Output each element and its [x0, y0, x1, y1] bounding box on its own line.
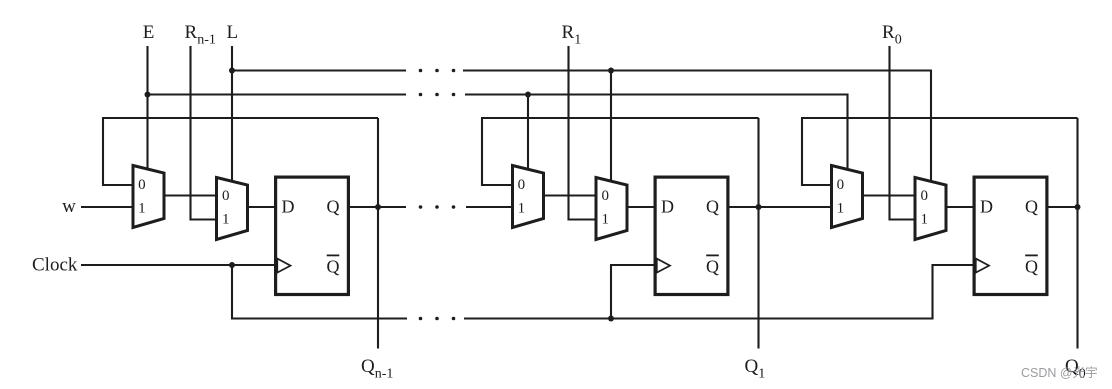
wire: w input into stage n-1 enable mux input 1: [81, 206, 135, 208]
wire: L select drop to stage 1 load mux: [610, 71, 612, 182]
wire: E input vertical / select into stage n-1 enable mux: [146, 46, 148, 170]
wire: R n-1 input vertical, bend into stage n-1 load mux input 1: [191, 46, 219, 220]
wire: stage 1 load-mux output to D: [625, 206, 656, 208]
D flip-flop, stage n-1: [276, 177, 349, 294]
junction node: clock branch: [229, 262, 235, 268]
2-to-1 load mux, stage n-1 (select L): [217, 178, 248, 240]
junction node: clock tap for stage 1: [608, 316, 614, 322]
wire: stage 0 feedback loop from Q up over to enable-mux input 0: [802, 118, 1078, 185]
svg-text:1: 1: [138, 201, 146, 217]
clock input triangle, stage n-1 flip-flop: [277, 259, 290, 273]
clock input triangle, stage 0 flip-flop: [976, 259, 989, 273]
svg-text:0: 0: [518, 177, 526, 193]
wire: L input vertical / select into stage n-1 load mux: [231, 46, 233, 181]
wire: stage 0 output vertical to Q 0: [1076, 118, 1078, 349]
2-to-1 enable mux, stage n-1 (select E): [133, 166, 164, 228]
D flip-flop, stage 0: [974, 177, 1047, 294]
junction node: E tap for stage n-1: [145, 92, 151, 98]
svg-text:Q1: Q1: [745, 356, 766, 382]
svg-text:0: 0: [837, 177, 845, 193]
ellipsis dots on E wire: [419, 93, 456, 97]
junction node: E tap for stage 1: [525, 92, 531, 98]
svg-text:Qn-1: Qn-1: [361, 356, 393, 382]
svg-text:Q: Q: [327, 257, 340, 277]
wire: stage n-1 load-mux output to D: [246, 206, 277, 208]
wire: stage 1 enable-mux output to load-mux input 0: [542, 194, 599, 196]
pin label Q-bar, stage 0 flip-flop: [1025, 255, 1038, 276]
wire: clock riser into stage 1 flip-flop: [611, 265, 656, 319]
svg-text:1: 1: [222, 212, 230, 228]
wire: serial wire into stage 1 enable mux input 1: [466, 206, 515, 208]
D flip-flop, stage 1: [655, 177, 728, 294]
svg-text:Rn-1: Rn-1: [185, 22, 216, 48]
wire: stage 0 load-mux output to D: [944, 206, 975, 208]
ellipsis dots on serial data wire: [419, 205, 456, 209]
wire: stage n-1 output vertical to Q n-1: [377, 118, 379, 349]
junction node Q n-1 (Q output junction): [375, 204, 381, 210]
pin label Q-bar, stage 1 flip-flop: [706, 255, 719, 276]
wire: Clock input to stage n-1 flip-flop: [81, 264, 276, 266]
wire: stage n-1 feedback loop from Q up over to enable-mux input 0: [103, 118, 378, 185]
wire: stage 1 output vertical to Q 1: [757, 118, 759, 349]
wire: E distribution, left segment: [148, 93, 407, 95]
svg-text:1: 1: [921, 212, 929, 228]
svg-text:1: 1: [602, 212, 610, 228]
wire: R 1 input vertical, bend into stage 1 load mux input 1: [569, 46, 599, 220]
2-to-1 enable mux, stage 1 (select E): [513, 166, 544, 228]
svg-text:w: w: [62, 196, 76, 217]
clock input triangle, stage 1 flip-flop: [657, 259, 670, 273]
wire: clock branch down and bottom distribution, left segment: [232, 265, 407, 319]
svg-text:CSDN @光宇: CSDN @光宇: [1021, 365, 1098, 380]
svg-text:Q: Q: [1025, 257, 1038, 277]
wire: L distribution, left segment: [232, 69, 406, 71]
svg-text:0: 0: [222, 188, 230, 204]
wire: stage 1 Q output to stage 0 enable mux input 1: [728, 206, 834, 208]
svg-text:D: D: [661, 197, 674, 217]
wire: E select drop to stage 1 enable mux: [527, 95, 529, 171]
svg-text:0: 0: [138, 177, 146, 193]
wire: E distribution, right segment bending down to stage 0 enable-mux select: [465, 95, 848, 171]
svg-text:1: 1: [837, 201, 845, 217]
wire: stage 1 feedback loop from Q up over to enable-mux input 0: [482, 118, 759, 185]
svg-text:D: D: [282, 197, 295, 217]
svg-text:R0: R0: [882, 22, 902, 48]
svg-text:0: 0: [602, 188, 610, 204]
svg-text:1: 1: [518, 201, 526, 217]
svg-text:Q: Q: [706, 197, 719, 217]
wire: stage 0 enable-mux output to load-mux input 0: [861, 194, 918, 196]
junction node: L tap for stage 1: [608, 68, 614, 74]
junction node Q 0 (Q output junction): [1075, 204, 1081, 210]
wire: L distribution, right segment bending down to stage 0 load-mux select: [463, 71, 931, 182]
svg-text:0: 0: [921, 188, 929, 204]
svg-text:D: D: [980, 197, 993, 217]
svg-text:R1: R1: [562, 22, 582, 48]
svg-text:L: L: [226, 22, 238, 43]
wire: bottom clock distribution, right segment rising into stage 0 flip-flop: [464, 265, 975, 319]
svg-text:E: E: [143, 22, 155, 43]
wire: stage n-1 enable-mux output to load-mux input 0: [162, 194, 219, 196]
pin label Q-bar, stage n-1 flip-flop: [327, 255, 340, 276]
wire: stage 0 Q output to node Q0: [1047, 206, 1078, 208]
wire: stage n-1 Q output to ellipsis: [348, 206, 406, 208]
2-to-1 load mux, stage 0 (select L): [915, 178, 946, 240]
svg-text:Clock: Clock: [32, 255, 78, 276]
ellipsis dots on L wire: [419, 69, 456, 73]
junction node: L tap for stage n-1: [229, 68, 235, 74]
svg-text:Q: Q: [1025, 197, 1038, 217]
ellipsis dots on clock wire: [419, 317, 456, 321]
junction node Q 1 (Q output junction): [756, 204, 762, 210]
wire: R 0 input vertical, bend into stage 0 load mux input 1: [890, 46, 918, 220]
2-to-1 enable mux, stage 0 (select E): [832, 166, 863, 228]
2-to-1 load mux, stage 1 (select L): [596, 178, 627, 240]
svg-text:Q: Q: [706, 257, 719, 277]
svg-text:Q: Q: [327, 197, 340, 217]
